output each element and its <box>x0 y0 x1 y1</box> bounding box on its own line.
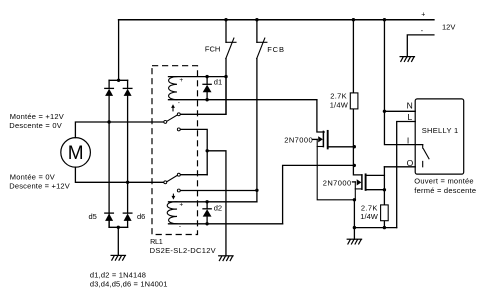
svg-text:1/4W: 1/4W <box>330 100 349 109</box>
svg-text:+: + <box>179 77 183 84</box>
svg-text:+: + <box>179 201 183 208</box>
svg-text:d6: d6 <box>137 212 145 221</box>
svg-text:d2: d2 <box>214 204 222 213</box>
svg-text:d1: d1 <box>214 78 222 87</box>
svg-text:Descente = +12V: Descente = +12V <box>9 182 70 191</box>
svg-text:DS2E-SL2-DC12V: DS2E-SL2-DC12V <box>150 246 216 255</box>
svg-text:d3,d4,d5,d6 = 1N4001: d3,d4,d5,d6 = 1N4001 <box>90 280 167 289</box>
svg-text:d1,d2 = 1N4148: d1,d2 = 1N4148 <box>90 270 146 279</box>
svg-text:2N7000: 2N7000 <box>323 179 352 188</box>
svg-text:FCB: FCB <box>267 45 284 54</box>
svg-text:12V: 12V <box>442 22 455 31</box>
svg-text:fermé = descente: fermé = descente <box>414 186 476 195</box>
svg-text:RL1: RL1 <box>150 237 163 246</box>
svg-text:Montée = 0V: Montée = 0V <box>10 172 55 181</box>
svg-text:+: + <box>421 11 425 18</box>
svg-text:Montée = +12V: Montée = +12V <box>10 112 64 121</box>
svg-text:2.7K: 2.7K <box>330 91 347 100</box>
svg-text:N: N <box>407 100 413 110</box>
svg-text:Ouvert = montée: Ouvert = montée <box>414 176 473 185</box>
svg-text:-: - <box>178 99 180 106</box>
svg-text:1/4W: 1/4W <box>360 212 379 221</box>
svg-text:M: M <box>68 143 84 164</box>
svg-text:Descente = 0V: Descente = 0V <box>9 121 62 130</box>
svg-text:-: - <box>179 223 181 230</box>
svg-text:d5: d5 <box>89 212 97 221</box>
svg-text:L: L <box>408 112 413 122</box>
svg-text:SHELLY 1: SHELLY 1 <box>422 126 459 135</box>
svg-text:FCH: FCH <box>205 45 220 54</box>
svg-text:2N7000: 2N7000 <box>284 135 313 144</box>
svg-text:O: O <box>407 158 414 168</box>
svg-text:I: I <box>407 135 409 145</box>
